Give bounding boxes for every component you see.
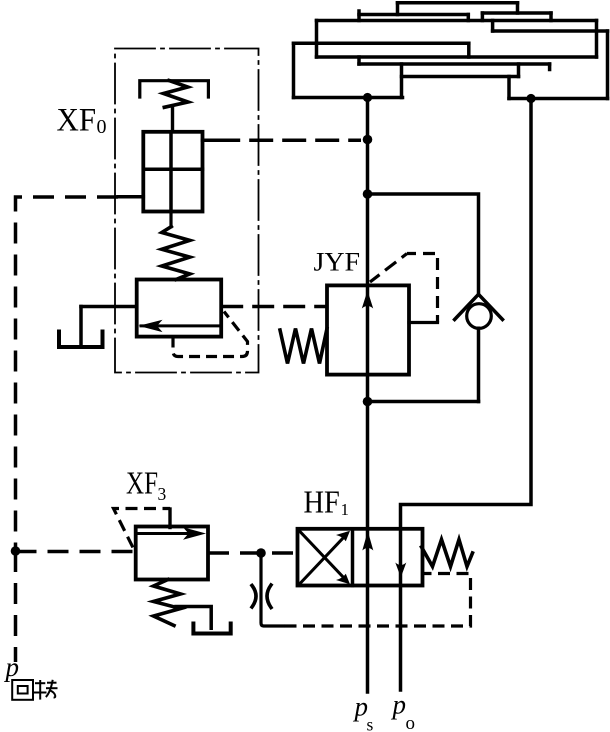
svg-text:HF: HF [304,484,340,520]
svg-text:1: 1 [341,500,350,519]
svg-text:0: 0 [97,116,107,138]
svg-text:p: p [4,652,20,682]
svg-text:s: s [367,715,374,732]
svg-text:XF: XF [57,103,97,139]
svg-text:JYF: JYF [314,248,361,277]
svg-text:XF: XF [126,465,158,501]
svg-text:3: 3 [158,484,167,504]
svg-text:o: o [406,713,416,732]
svg-text:p: p [391,690,407,720]
